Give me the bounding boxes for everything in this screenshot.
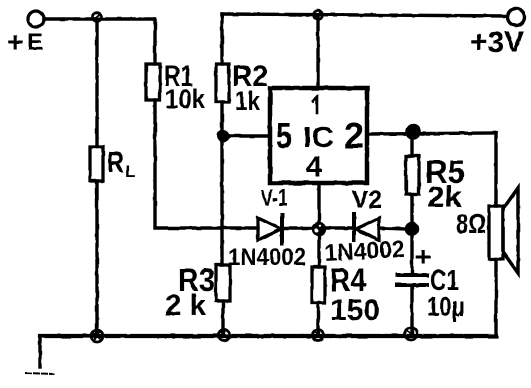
capacitor C1 xyxy=(397,275,427,285)
wire: C1 to bottom rail xyxy=(410,285,413,336)
resistor R5 xyxy=(410,139,413,156)
node: pin2/R5 junction xyxy=(406,125,420,139)
svg-text:+: + xyxy=(7,26,23,57)
label 1N4002 (V1) xyxy=(228,244,306,271)
svg-text:L: L xyxy=(125,162,135,181)
node: rail junction at RL xyxy=(91,330,103,342)
node: rail junction at R4 xyxy=(313,330,324,341)
wire: pin 1 to +3V rail xyxy=(316,15,319,88)
label R3 2k xyxy=(165,262,215,322)
wire: R3 to bottom rail xyxy=(221,301,224,336)
wire: junction to IC pin 5 xyxy=(223,134,270,137)
svg-text:+3V: +3V xyxy=(470,26,524,59)
svg-text:10μ: 10μ xyxy=(427,291,465,322)
label C1 10u xyxy=(427,265,465,322)
node: V2/R5/C1 junction xyxy=(406,223,419,236)
label pin 4 xyxy=(306,151,322,183)
diode V2 xyxy=(354,214,406,240)
label 8 ohm xyxy=(456,208,486,239)
resistor RL xyxy=(90,147,103,181)
label RL xyxy=(107,147,135,181)
svg-text:V2: V2 xyxy=(352,186,382,214)
label + (C1 polarity) xyxy=(415,241,431,272)
node: R2/pin5 junction xyxy=(218,131,229,142)
resistor R1 xyxy=(146,64,160,100)
terminal +E xyxy=(28,11,44,27)
terminal +3V xyxy=(508,9,525,26)
node: center node (pin4/V1/V2/R4) xyxy=(313,223,326,236)
svg-text:10k: 10k xyxy=(165,84,206,114)
wire: +3V rail xyxy=(222,14,507,16)
label 1N4002 (V2) xyxy=(324,236,405,267)
resistor R4 xyxy=(312,267,325,303)
label pin 2 xyxy=(344,115,364,156)
resistor R2 xyxy=(216,64,229,102)
label +3V xyxy=(470,26,524,59)
svg-text:1k: 1k xyxy=(235,86,261,116)
node: junction on +3V rail xyxy=(314,11,323,20)
label R5 2k xyxy=(425,154,465,214)
wire: R1 down and right to diode V1 xyxy=(155,100,258,228)
wire: R4 to bottom rail xyxy=(316,303,319,336)
label IC xyxy=(303,122,334,154)
svg-text:2 k: 2 k xyxy=(165,289,206,322)
wire: RL to bottom rail xyxy=(95,181,98,336)
svg-text:150: 150 xyxy=(330,294,380,327)
wire: corner down to R2 xyxy=(220,14,223,64)
wire: down from +E junction to RL xyxy=(95,21,98,147)
wire: pin 4 down to center node xyxy=(317,183,320,222)
label R2 1k xyxy=(232,60,268,116)
speaker 8ohm xyxy=(489,188,518,273)
node: junction on +E rail xyxy=(93,13,102,22)
wire: speaker to bottom rail xyxy=(494,259,497,336)
svg-text:+: + xyxy=(415,241,431,272)
svg-text:E: E xyxy=(27,29,43,56)
label +E xyxy=(7,26,43,57)
wire: R5 to node xyxy=(410,194,413,229)
wire: bottom-left drop xyxy=(38,336,41,367)
wire: down to speaker xyxy=(494,133,497,206)
svg-text:2: 2 xyxy=(344,115,364,156)
label pin 1 xyxy=(313,97,317,113)
svg-text:8Ω: 8Ω xyxy=(456,208,486,239)
svg-text:V-1: V-1 xyxy=(261,185,288,212)
wire: pin 2 right to speaker corner xyxy=(367,133,496,134)
wire: node down to C1 xyxy=(410,236,413,273)
diode V1 xyxy=(258,215,312,243)
wire: node to V2 xyxy=(326,226,352,229)
label R1 10k xyxy=(164,60,206,114)
node: rail junction at C1 xyxy=(405,328,417,340)
wire: +E rail to R1 corner xyxy=(44,17,155,20)
resistor R3 xyxy=(216,265,230,301)
wire: R2 to junction xyxy=(220,102,223,135)
wire: junction down to R3 xyxy=(220,136,223,265)
svg-text:IC: IC xyxy=(303,122,334,154)
label pin 5 xyxy=(276,115,292,156)
label V2 xyxy=(352,186,382,214)
svg-text:1N4002: 1N4002 xyxy=(228,244,306,271)
svg-text:R: R xyxy=(107,147,124,179)
wire: bottom rail xyxy=(40,334,496,338)
svg-text:R4: R4 xyxy=(330,262,366,298)
svg-text:4: 4 xyxy=(306,151,322,183)
label R4 150 xyxy=(330,262,380,327)
wire: corner down to R1 xyxy=(153,19,156,64)
label V-1 xyxy=(261,185,288,212)
wire: node down to R4 xyxy=(317,235,320,267)
mark: cut-off squiggle xyxy=(26,373,54,374)
op-amp / IC U1 xyxy=(270,88,367,183)
svg-text:5: 5 xyxy=(276,115,292,156)
node: rail junction at R3 xyxy=(219,330,230,341)
